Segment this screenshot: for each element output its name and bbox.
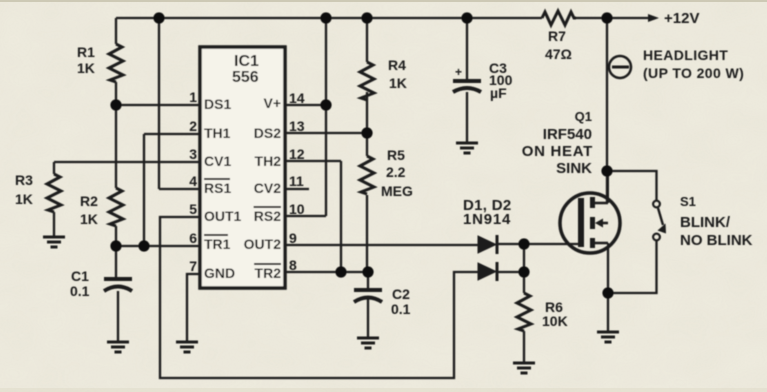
- node D2-R6: [518, 266, 529, 277]
- svg-text:IRF540: IRF540: [543, 126, 592, 143]
- switch S1: [653, 201, 666, 241]
- top edge shadow: [0, 0, 767, 2]
- svg-text:SINK: SINK: [556, 160, 592, 177]
- ground under pin7: [176, 342, 198, 352]
- wire pin8 node to C2: [367, 272, 369, 289]
- svg-text:R1: R1: [77, 44, 95, 60]
- wire top rail: [116, 17, 542, 19]
- svg-text:10: 10: [289, 201, 305, 217]
- wire pin9 OUT2 to D1: [285, 244, 478, 246]
- resistor R2: [109, 188, 123, 226]
- svg-text:10K: 10K: [542, 313, 568, 329]
- svg-text:TH2: TH2: [255, 153, 282, 169]
- wire pin13 DS2 to R4R5: [285, 132, 368, 134]
- svg-text:IC1: IC1: [234, 53, 259, 70]
- svg-text:HEADLIGHT: HEADLIGHT: [643, 47, 728, 63]
- wire headlight drain column: [606, 18, 608, 203]
- node source-S1: [602, 287, 613, 298]
- wire Q1 source to ground: [607, 247, 609, 331]
- svg-text:0.1: 0.1: [391, 301, 411, 317]
- node rail-RS1: [153, 12, 164, 23]
- node pin6-TH1: [138, 240, 149, 251]
- wire R2 bottom to C1: [115, 226, 117, 278]
- svg-text:RS2: RS2: [254, 208, 281, 224]
- svg-text:C1: C1: [71, 268, 89, 284]
- svg-text:R3: R3: [15, 172, 33, 188]
- svg-text:1N914: 1N914: [463, 211, 511, 228]
- diode D1: [478, 235, 497, 254]
- resistor R3: [47, 174, 61, 212]
- capacitor C2: [354, 290, 382, 302]
- wire pin2 to pin6 vertical: [143, 134, 145, 246]
- svg-text:CV1: CV1: [204, 153, 231, 169]
- capacitor C3 polarized: [453, 81, 481, 92]
- wire C2 bottom to ground: [367, 299, 369, 337]
- svg-text:OUT2: OUT2: [244, 236, 282, 252]
- svg-text:0.1: 0.1: [70, 283, 90, 299]
- resistor R7 horizontal: [542, 11, 576, 25]
- resistor R1: [109, 44, 123, 82]
- wire C3 top: [466, 18, 468, 80]
- diode D2: [478, 262, 497, 281]
- wire pin10 RS2: [285, 215, 326, 217]
- resistor R5: [360, 156, 374, 194]
- svg-text:7: 7: [189, 258, 197, 274]
- svg-text:TR2: TR2: [255, 265, 282, 281]
- resistor R4: [360, 62, 374, 100]
- svg-text:R2: R2: [80, 193, 98, 209]
- svg-text:3: 3: [189, 146, 197, 162]
- wire R1 column top: [115, 18, 117, 44]
- ground under R6: [513, 363, 535, 373]
- svg-text:OUT1: OUT1: [204, 208, 242, 224]
- svg-text:GND: GND: [204, 265, 235, 281]
- +12V arrow: [648, 14, 659, 22]
- node rail-V+: [320, 12, 331, 23]
- svg-text:+: +: [455, 65, 462, 79]
- svg-text:MEG: MEG: [381, 183, 413, 199]
- wire pin5 OUT1 bottom route: [160, 217, 478, 378]
- transistor Q1 MOSFET: [560, 171, 620, 253]
- svg-text:TR1: TR1: [204, 236, 231, 252]
- node drain-S1: [601, 165, 612, 176]
- capacitor C1: [104, 279, 132, 291]
- svg-text:11: 11: [289, 173, 304, 189]
- node pin1-R1R2: [110, 99, 121, 110]
- svg-text:DS1: DS1: [204, 96, 231, 112]
- wire pin11 CV2 stub: [285, 188, 309, 190]
- svg-text:12: 12: [289, 146, 305, 162]
- wire R5 bottom to pin8: [366, 195, 368, 272]
- svg-text:C2: C2: [392, 286, 410, 302]
- wire pin1 DS1: [116, 104, 200, 106]
- svg-text:ON HEAT: ON HEAT: [522, 143, 593, 160]
- node D1-gate: [518, 238, 529, 249]
- wire R4 column rail: [366, 18, 368, 62]
- svg-text:13: 13: [289, 118, 305, 134]
- svg-text:14: 14: [289, 90, 305, 106]
- wire S1 top branch: [607, 171, 657, 200]
- wire pin3 CV1 to R3: [54, 161, 200, 163]
- svg-text:DS2: DS2: [254, 125, 281, 141]
- svg-text:1K: 1K: [77, 60, 95, 76]
- node pin13-R4R5: [361, 127, 372, 138]
- wire C3 bottom to ground: [466, 92, 468, 142]
- svg-text:BLINK/: BLINK/: [680, 214, 731, 231]
- ground under Q1: [597, 332, 619, 342]
- wire R1 bottom to pin1: [115, 82, 117, 188]
- wire C1 bottom to ground: [117, 291, 119, 341]
- svg-text:Q1: Q1: [575, 109, 592, 124]
- wire pin8 TR2: [285, 271, 368, 273]
- wire rail to pin4 vertical: [158, 18, 160, 189]
- node rail-C3: [461, 12, 472, 23]
- node pin6-R2C1: [110, 240, 121, 251]
- headlight lamp: [609, 56, 631, 78]
- svg-text:1K: 1K: [389, 75, 407, 91]
- svg-text:µF: µF: [490, 85, 507, 101]
- wire R3 bottom to ground: [53, 212, 55, 236]
- svg-text:1: 1: [189, 89, 197, 105]
- IC1 556 box: [200, 47, 285, 288]
- svg-text:556: 556: [232, 69, 259, 86]
- wire D2 cathode to node: [497, 271, 524, 273]
- ground under C3: [456, 143, 478, 153]
- svg-text:47Ω: 47Ω: [545, 46, 572, 62]
- svg-text:V+: V+: [263, 95, 281, 111]
- svg-text:R5: R5: [387, 147, 405, 163]
- wire pin12 to pin8 vertical: [340, 161, 342, 272]
- wire rail to RS2 vertical: [325, 18, 327, 216]
- svg-text:1K: 1K: [15, 191, 33, 207]
- wire R3 top: [53, 162, 55, 174]
- node rail-headlight: [601, 12, 612, 23]
- svg-text:4: 4: [189, 173, 197, 189]
- node pin8-R5C2: [362, 266, 373, 277]
- node rail-R4: [361, 12, 372, 23]
- ground under C2: [357, 338, 379, 348]
- wire R4 bottom to R5 top: [366, 92, 368, 156]
- svg-text:TH1: TH1: [204, 125, 231, 141]
- svg-text:S1: S1: [680, 194, 696, 209]
- svg-text:5: 5: [189, 201, 197, 217]
- ground under C1: [107, 342, 129, 352]
- resistor R6: [517, 293, 531, 331]
- ground under R3: [43, 237, 65, 247]
- svg-text:2: 2: [189, 118, 197, 134]
- wire pin12 TH2: [285, 160, 341, 162]
- svg-text:RS1: RS1: [204, 180, 231, 196]
- svg-text:NO BLINK: NO BLINK: [680, 232, 753, 249]
- svg-text:1K: 1K: [80, 211, 98, 227]
- svg-text:2.2: 2.2: [386, 164, 406, 180]
- svg-text:(UP TO 200 W): (UP TO 200 W): [643, 65, 744, 81]
- svg-text:8: 8: [289, 257, 297, 273]
- node pin8-TH2: [335, 266, 346, 277]
- wire gate node vertical: [523, 244, 525, 293]
- wire R6 bottom to ground: [523, 331, 525, 362]
- svg-text:+12V: +12V: [664, 10, 699, 27]
- wire pin2 TH1: [144, 133, 200, 135]
- svg-text:R4: R4: [388, 57, 406, 73]
- wire pin14 V+: [285, 104, 326, 106]
- wire pin7 GND stub: [187, 274, 200, 341]
- wire S1 bottom branch: [608, 241, 657, 293]
- svg-text:R7: R7: [548, 28, 566, 44]
- node pin14-V+: [320, 99, 331, 110]
- wire pin6 TR1: [116, 245, 200, 247]
- svg-text:6: 6: [189, 230, 197, 246]
- svg-text:9: 9: [289, 230, 297, 246]
- wire pin4 RS1: [159, 188, 200, 190]
- wire D1 cathode to gate: [497, 243, 580, 245]
- svg-text:CV2: CV2: [254, 180, 281, 196]
